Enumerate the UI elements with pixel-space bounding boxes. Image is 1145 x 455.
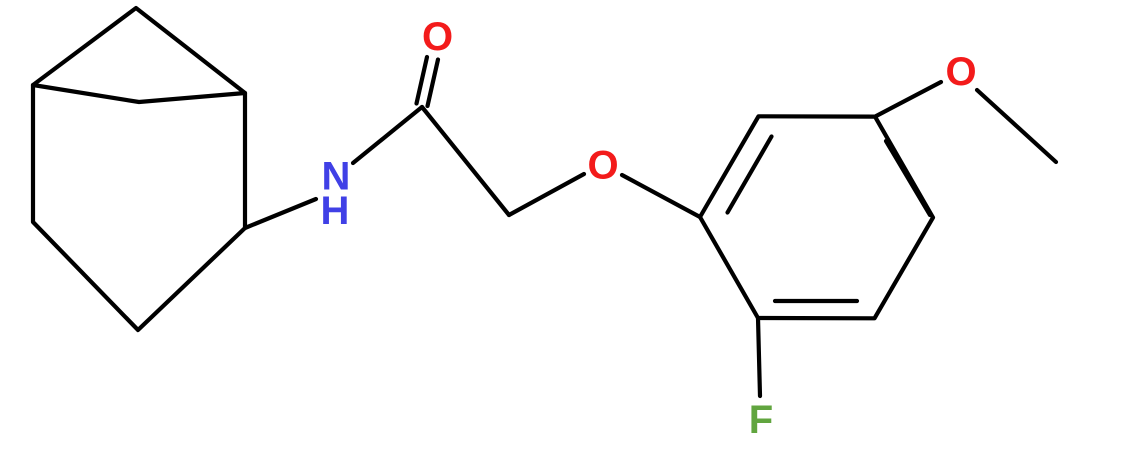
svg-text:O: O bbox=[945, 50, 976, 94]
svg-text:H: H bbox=[321, 189, 350, 233]
svg-text:O: O bbox=[422, 15, 453, 59]
svg-text:F: F bbox=[749, 398, 773, 442]
svg-text:O: O bbox=[587, 144, 618, 188]
